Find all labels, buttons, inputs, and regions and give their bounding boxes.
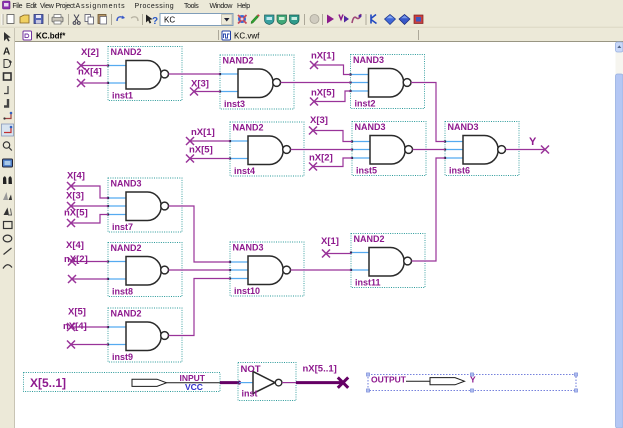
- input pin symbol line: [167, 382, 221, 384]
- left toolbar icon: text tool: [3, 47, 10, 58]
- node X[4] to inst8.in1: endpoint marker: [68, 258, 76, 266]
- wire inst6.out to node Y: [506, 149, 546, 151]
- svg-text:NAND2: NAND2: [223, 56, 254, 66]
- svg-text:X[4]: X[4]: [67, 170, 85, 181]
- svg-text:KC.bdf*: KC.bdf*: [36, 32, 66, 41]
- node nX[5] to inst7.in3: endpoint marker: [67, 219, 75, 227]
- scrollbar thumb: [616, 74, 623, 428]
- wire X[3] to inst5.in1: [313, 131, 352, 142]
- vertical scrollbar track: [616, 42, 623, 428]
- wire nX[4] to inst1.in2: [81, 82, 108, 84]
- left toolbar icon: orthogonal bus tool: [4, 99, 8, 107]
- svg-text:nX[5]: nX[5]: [311, 88, 335, 99]
- tab 1 icon (bdf): [23, 31, 32, 40]
- toolbar icon: print: [52, 15, 63, 25]
- toolbar icon: assignment shield 3: [290, 15, 300, 25]
- svg-text:nX[2]: nX[2]: [64, 254, 88, 265]
- wire nX[5] to inst4.in2: [190, 158, 230, 160]
- wire nX[1] to inst4.in1: [190, 140, 230, 142]
- toolbar icon: open folder: [20, 15, 29, 23]
- output pin flag symbol: [430, 378, 465, 385]
- toolbar icon: assignment shield 1: [265, 15, 275, 25]
- svg-text:NAND2: NAND2: [111, 47, 142, 57]
- tab 2 icon (vwf): [222, 31, 231, 40]
- wire inst1.out to inst3.in1: [169, 73, 221, 75]
- nand2 inst11 (NAND2 gate): [350, 234, 425, 288]
- nand3 inst6 (NAND3 gate): [444, 122, 519, 176]
- svg-text:NAND2: NAND2: [233, 123, 264, 133]
- svg-text:X[3]: X[3]: [191, 79, 209, 90]
- toolbar icon: gem 2: [399, 15, 410, 25]
- left toolbar icon: find tool: [3, 176, 12, 184]
- left toolbar icon: flip horizontal tool: [3, 192, 12, 200]
- left toolbar icon: zoom tool: [3, 142, 12, 151]
- left toolbar icon: partial line tool 1: [3, 112, 12, 120]
- svg-text:inst2: inst2: [355, 99, 376, 109]
- toolbar icon: start compilation: [327, 15, 334, 24]
- svg-text:X[3]: X[3]: [310, 115, 328, 126]
- svg-text:nX[4]: nX[4]: [63, 321, 87, 332]
- toolbar grip: [1, 14, 3, 25]
- node X[3] to inst7.in2: endpoint marker: [67, 202, 75, 210]
- bus wire X[5..1] to NOT input: [220, 381, 239, 384]
- svg-text:View: View: [40, 3, 55, 10]
- wire X[2] to inst1.in1: [81, 65, 108, 67]
- wire inst9.out to inst10.in3: [169, 279, 231, 336]
- toolbar icon: gem 1: [385, 15, 396, 25]
- node Y: endpoint marker: [541, 146, 549, 154]
- left toolbar icon: symbol tool: [4, 60, 12, 68]
- menu bar document icon: [3, 1, 11, 9]
- left toolbar right border: [14, 28, 16, 428]
- scrollbar up button: [616, 42, 623, 52]
- toolbar icon: assignment shield 2: [277, 15, 287, 25]
- node nX[2] to inst8.in2: endpoint marker: [68, 275, 76, 283]
- nand3 inst5 (NAND3 gate): [351, 122, 426, 176]
- node X[3] to inst5.in1: endpoint marker: [309, 127, 317, 135]
- toolbar icon: new project wizard: [238, 15, 247, 24]
- svg-text:inst9: inst9: [112, 352, 133, 362]
- svg-text:Processing: Processing: [135, 3, 175, 10]
- toolbar icon: context help: [146, 15, 158, 28]
- tab bar background: [15, 28, 623, 42]
- toolbar icon: netlist viewer: [352, 14, 362, 23]
- output pin symbol line: [406, 380, 430, 382]
- wire X[4] to inst8.in1: [72, 261, 108, 263]
- wire inst10.out to inst11.in2: [291, 269, 352, 271]
- input pin flag symbol: [132, 379, 167, 386]
- svg-text:NAND2: NAND2: [111, 243, 142, 253]
- output pin Y (selected): [366, 373, 577, 392]
- toolbar icon: redo (disabled): [131, 17, 138, 21]
- toolbar icon: cut: [73, 15, 80, 25]
- nand3 inst10 (NAND3 gate): [229, 242, 304, 296]
- svg-text:OUTPUT: OUTPUT: [371, 375, 407, 385]
- svg-text:NAND2: NAND2: [354, 234, 385, 244]
- svg-text:X[1]: X[1]: [321, 236, 339, 247]
- input pin X[5..1]: [24, 373, 221, 392]
- svg-text:inst1: inst1: [112, 91, 133, 101]
- svg-text:NAND2: NAND2: [111, 309, 142, 319]
- node nX[4] to inst1.in2: endpoint marker: [77, 79, 85, 87]
- wire nX[2] to inst8.in2: [72, 278, 108, 280]
- left toolbar icon: line tool: [4, 248, 12, 255]
- toolbar icon: start analysis: [339, 15, 349, 23]
- wire nX[5] to inst2.in3: [314, 91, 351, 102]
- node nX[5] to inst4.in2: endpoint marker: [186, 155, 194, 163]
- svg-text:inst: inst: [242, 389, 258, 399]
- node X[1] to inst11.in1: endpoint marker: [322, 250, 330, 258]
- svg-text:inst6: inst6: [449, 166, 470, 176]
- svg-text:Y: Y: [470, 375, 476, 385]
- svg-text:NAND3: NAND3: [448, 122, 479, 132]
- output pin selection box: [368, 375, 576, 391]
- toolbar icon: undo: [117, 16, 125, 22]
- wire X[5] to inst9.in1: [71, 326, 108, 328]
- toolbar combo box: [160, 14, 233, 26]
- svg-text:NAND3: NAND3: [353, 55, 384, 65]
- svg-text:inst4: inst4: [234, 166, 255, 176]
- svg-text:Edit: Edit: [26, 3, 37, 10]
- left toolbar icon: flip vertical tool: [4, 208, 12, 216]
- svg-text:inst3: inst3: [224, 99, 245, 109]
- svg-text:?: ?: [152, 16, 158, 27]
- svg-text:VCC: VCC: [185, 382, 203, 392]
- left toolbar icon: block tool: [4, 73, 12, 80]
- svg-text:KC: KC: [164, 16, 175, 25]
- svg-text:X[3]: X[3]: [66, 191, 84, 202]
- svg-text:Help: Help: [237, 3, 250, 10]
- svg-text:nX[5..1]: nX[5..1]: [303, 364, 337, 375]
- left toolbar icon: rectangle tool: [4, 222, 13, 229]
- svg-text:X[4]: X[4]: [66, 240, 84, 251]
- toolbar icon: new file: [7, 15, 14, 24]
- wire inst11.out to inst6.in3: [412, 158, 446, 261]
- wire X[3] to inst3.in2: [194, 91, 220, 93]
- left toolbar icon: partial line tool 2 (selected): [2, 124, 14, 136]
- nand2 inst8 (NAND2 gate): [107, 243, 182, 297]
- wire inst5.out to inst6.in2: [413, 149, 446, 151]
- nand2 inst4 (NAND2 gate): [229, 122, 304, 176]
- svg-text:A: A: [3, 47, 10, 58]
- svg-text:inst10: inst10: [234, 286, 260, 296]
- svg-text:NAND3: NAND3: [233, 243, 264, 253]
- svg-text:nX[1]: nX[1]: [191, 127, 215, 138]
- svg-text:nX[2]: nX[2]: [309, 153, 333, 164]
- toolbar icon: timing analyzer: [371, 15, 377, 24]
- wire inst8.out to inst10.in2: [169, 269, 231, 271]
- left toolbar icon: full screen tool: [3, 159, 13, 167]
- nand2 inst1 (NAND2 gate): [107, 47, 182, 101]
- left toolbar icon: selection tool: [4, 32, 11, 42]
- svg-text:Y: Y: [529, 136, 537, 148]
- bus wire NOT output nX[5..1]: [296, 381, 343, 384]
- wire inst7.out to inst10.in1: [169, 206, 231, 262]
- bus node nX[5..1] endpoint marker: [338, 377, 348, 387]
- svg-text:Project: Project: [56, 3, 75, 10]
- svg-text:X[5]: X[5]: [68, 307, 86, 318]
- wire nX[1] to inst2.in1: [314, 65, 351, 75]
- nand3 inst7 (NAND3 gate): [107, 178, 182, 232]
- NOT gate inst: [238, 363, 296, 401]
- menu bar items: [12, 3, 250, 10]
- wire inst3.out to inst2.in2: [281, 82, 351, 84]
- svg-text:NOT: NOT: [241, 364, 261, 375]
- tab divider lines: [219, 30, 419, 40]
- toolbar icon: save floppy: [34, 15, 43, 24]
- svg-text:nX[4]: nX[4]: [78, 66, 102, 77]
- svg-text:inst7: inst7: [112, 222, 133, 232]
- left toolbar icon: orthogonal node tool: [4, 86, 8, 94]
- svg-text:X[2]: X[2]: [81, 47, 99, 58]
- svg-text:inst5: inst5: [356, 166, 377, 176]
- svg-text:inst11: inst11: [355, 278, 381, 288]
- toolbar icon: paste: [98, 15, 107, 25]
- nand3 inst2 (NAND3 gate): [349, 55, 424, 109]
- node X[4] to inst7.in1: endpoint marker: [67, 182, 75, 190]
- node nX[5] to inst2.in3: endpoint marker: [310, 98, 318, 106]
- svg-text:X[5..1]: X[5..1]: [30, 376, 66, 390]
- wire X[1] to inst11.in1: [326, 253, 351, 255]
- window chrome background: [0, 0, 623, 42]
- canvas top border: [15, 41, 623, 43]
- svg-text:NAND3: NAND3: [355, 122, 386, 132]
- bus junction dot at NOT input: [237, 381, 241, 385]
- toolbar icon: pencil: [251, 14, 260, 23]
- node X[5] to inst9.in1: endpoint marker: [67, 323, 75, 331]
- node nX[4] to inst9.in2: endpoint marker: [67, 341, 75, 349]
- svg-text:NAND3: NAND3: [111, 179, 142, 189]
- toolbar icon: stop (disabled): [310, 15, 319, 24]
- left toolbar background: [0, 28, 15, 428]
- wire X[3] to inst7.in2: [71, 205, 108, 207]
- left toolbar icon: oval tool: [3, 235, 12, 242]
- svg-text:nX[1]: nX[1]: [311, 50, 335, 61]
- wire inst4.out to inst5.in2: [291, 149, 353, 151]
- toolbar separator lines: [49, 14, 367, 25]
- node X[2] to inst1.in1: endpoint marker: [77, 62, 85, 70]
- svg-text:inst8: inst8: [112, 287, 133, 297]
- wire nX[4] to inst9.in2: [71, 344, 108, 346]
- node X[3] to inst3.in2: endpoint marker: [190, 88, 198, 96]
- svg-text:File: File: [12, 3, 22, 10]
- wire X[4] to inst7.in1: [71, 186, 108, 198]
- toolbar/tab separator line: [0, 26, 623, 28]
- nand2 inst3 (NAND2 gate): [219, 55, 294, 109]
- svg-text:nX[5]: nX[5]: [189, 145, 213, 156]
- svg-text:Assignments: Assignments: [76, 3, 126, 10]
- wire nX[2] to inst5.in3: [313, 158, 352, 167]
- node nX[2] to inst5.in3: endpoint marker: [309, 163, 317, 171]
- toolbar icon: programmer: [414, 15, 423, 24]
- svg-text:Tools: Tools: [184, 3, 199, 10]
- svg-text:KC.vwf: KC.vwf: [234, 32, 260, 41]
- svg-text:nX[5]: nX[5]: [64, 208, 88, 219]
- left toolbar icon: arc tool: [3, 265, 12, 269]
- wire inst2.out to inst6.in1: [411, 83, 445, 142]
- node nX[1] to inst2.in1: endpoint marker: [310, 61, 318, 69]
- svg-text:Window: Window: [210, 3, 234, 10]
- toolbar icon: copy: [85, 15, 94, 25]
- nand2 inst9 (NAND2 gate): [107, 308, 182, 362]
- node nX[1] to inst4.in1: endpoint marker: [186, 137, 194, 145]
- wire nX[5] to inst7.in3: [71, 215, 108, 224]
